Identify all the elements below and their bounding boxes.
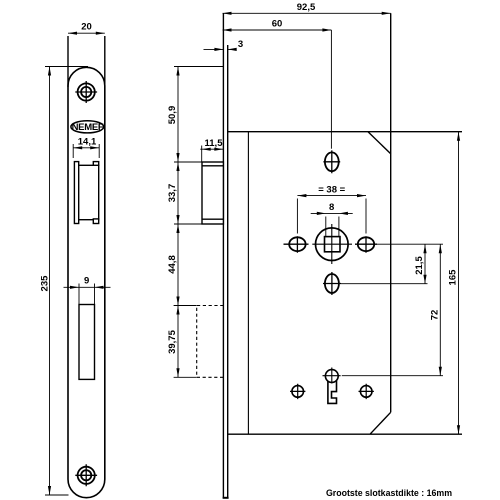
lower oval hole bbox=[323, 272, 341, 295]
svg-text:21,5: 21,5 bbox=[414, 256, 425, 275]
side view faceplate front edge line bbox=[222, 13, 224, 498]
dim 33,7 bbox=[167, 162, 202, 224]
keyhole circle bbox=[325, 370, 338, 383]
dim 50,9 bbox=[167, 67, 223, 163]
lock case left edge bbox=[247, 132, 249, 435]
bottom-right chamfer bbox=[370, 412, 391, 434]
latch bolt (side view) bbox=[202, 162, 223, 224]
dim 92,5 bbox=[223, 2, 391, 15]
svg-text:44,8: 44,8 bbox=[167, 255, 178, 274]
left fixing hole bbox=[284, 236, 309, 252]
keyhole crosshair bbox=[323, 368, 341, 384]
dim 39,75 bbox=[167, 306, 197, 378]
upper oval hole bbox=[323, 150, 340, 173]
centreline extension lower oval bbox=[341, 283, 428, 285]
dim 21,5 bbox=[414, 244, 426, 284]
svg-text:165: 165 bbox=[447, 269, 458, 286]
svg-text:235: 235 bbox=[39, 275, 50, 292]
top-right chamfer bbox=[368, 132, 391, 154]
dim 3 (faceplate thickness) bbox=[204, 39, 244, 51]
extension 60 down to spindle centreline bbox=[330, 30, 332, 149]
dim 9 (deadbolt slot width) bbox=[64, 276, 111, 305]
centreline extension to right dims bbox=[377, 243, 443, 245]
dim 20 (faceplate width) bbox=[68, 22, 105, 88]
right keyhole screw bbox=[359, 384, 374, 399]
svg-text:20: 20 bbox=[81, 22, 92, 33]
svg-text:33,7: 33,7 bbox=[167, 184, 178, 203]
svg-text:50,9: 50,9 bbox=[167, 106, 178, 125]
svg-text:72: 72 bbox=[430, 310, 441, 321]
svg-text:60: 60 bbox=[272, 19, 283, 30]
latch bolt (front view) bbox=[74, 162, 98, 224]
NEMEF logo oval bbox=[71, 121, 104, 133]
deadbolt opening (front view) bbox=[79, 305, 95, 380]
svg-text:NEMEF: NEMEF bbox=[72, 122, 104, 133]
svg-text:11,5: 11,5 bbox=[205, 138, 224, 149]
dim 235 (faceplate height) bbox=[39, 67, 88, 496]
side view faceplate back edge line bbox=[227, 45, 229, 498]
svg-text:3: 3 bbox=[238, 39, 243, 50]
top screw hole bbox=[75, 81, 97, 103]
lock case top edge bbox=[228, 131, 462, 133]
dim 8 (spindle square) bbox=[311, 202, 353, 236]
lock case right edge / extension bbox=[390, 13, 392, 412]
svg-text:9: 9 bbox=[84, 276, 89, 287]
dim 60 bbox=[223, 19, 332, 32]
svg-text:Grootste slotkastdikte : 16mm: Grootste slotkastdikte : 16mm bbox=[326, 488, 452, 498]
spindle crosshair bbox=[312, 224, 352, 264]
keyhole slot bbox=[328, 380, 337, 404]
faceplate outline (front view) bbox=[68, 67, 105, 497]
svg-text:= 38 =: = 38 = bbox=[318, 184, 345, 195]
lock case bottom edge bbox=[228, 433, 462, 435]
dim 11,5 (latch protrusion) bbox=[200, 138, 223, 162]
spindle square 8mm bbox=[325, 237, 341, 252]
dim 165 bbox=[447, 132, 460, 435]
spindle hole (circle) bbox=[316, 228, 349, 261]
keyhole centreline extension bbox=[342, 375, 443, 377]
deadbolt thrown (dashed, side view) bbox=[197, 306, 224, 378]
svg-text:14,1: 14,1 bbox=[78, 137, 97, 148]
side view faceplate bottom cap bbox=[223, 497, 229, 499]
svg-text:8: 8 bbox=[329, 202, 334, 213]
left keyhole screw bbox=[290, 384, 305, 399]
svg-text:92,5: 92,5 bbox=[297, 2, 316, 13]
dim 14,1 (latch width) bbox=[73, 137, 99, 159]
bottom screw hole bbox=[75, 464, 97, 486]
right fixing hole bbox=[355, 236, 377, 252]
dim 72 bbox=[430, 244, 442, 376]
dim 44,8 bbox=[167, 224, 179, 306]
svg-text:39,75: 39,75 bbox=[167, 329, 178, 353]
dim =38= bbox=[297, 184, 366, 233]
